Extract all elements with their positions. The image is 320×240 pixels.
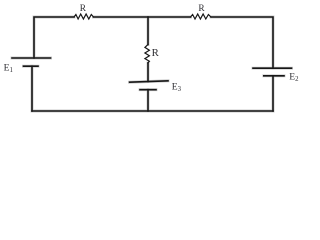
circuit wiring (soft halo pass)	[12, 14, 292, 111]
svg-text:R: R	[80, 4, 87, 14]
svg-text:E3: E3	[172, 82, 182, 94]
svg-text:R: R	[152, 47, 160, 59]
svg-text:E2: E2	[289, 72, 299, 84]
circuit wiring (ink pass)	[12, 14, 292, 111]
svg-text:E1: E1	[4, 63, 13, 75]
svg-text:R: R	[198, 4, 205, 14]
